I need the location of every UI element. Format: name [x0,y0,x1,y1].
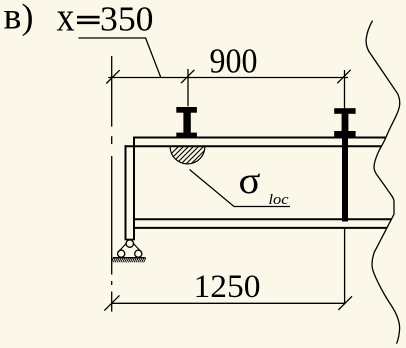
tick at first load point on top dimension [181,70,194,83]
extension centerline at support (dash-dot) [111,56,113,312]
label x=350 [57,0,154,40]
support pin circle [126,240,133,247]
svg-text:x: x [57,0,75,40]
svg-text:350: 350 [100,0,154,39]
beam left end inner edge [133,137,135,240]
dimension line top (x=350 and 900 chain) [108,77,348,79]
bold web stiffener bar at right load [342,138,348,222]
dimension line bottom 1250 [112,302,345,304]
svg-text:σ: σ [239,160,261,202]
local stress dome hatch [157,142,223,168]
support left strut [118,243,127,253]
support right strut [133,243,142,253]
extension line at second load point [344,70,346,109]
beam top flange top line [134,137,386,139]
svg-text:900: 900 [210,42,258,81]
stiffener / load stamp left (bold I) [176,107,197,138]
tick at left end of bottom dimension [104,295,119,310]
extension line at first load point [187,69,189,106]
svg-text:1250: 1250 [194,269,261,305]
tick at left end of top dimension [106,70,119,83]
stiffener / load stamp right (bold I) [334,108,355,137]
local stress dome outline [170,147,205,164]
beam left end outer edge [125,145,127,239]
break wave line [366,21,400,344]
beam top flange bottom line [126,145,382,147]
svg-text:loc: loc [269,192,289,208]
tick at right end of bottom dimension [338,296,352,310]
beam bottom flange top line [134,218,392,220]
support left roller [118,250,125,257]
leader line sigma loc [190,170,291,207]
svg-text:в): в) [4,0,34,38]
extension line right of bottom dimension [344,229,346,304]
beam bottom flange bottom line [134,227,388,229]
support ground hatching [111,258,146,262]
support right roller [135,250,142,257]
leader line for x=350 [78,38,160,77]
beam left end bottom cap [125,239,136,241]
tick at right end of top dimension [337,70,350,83]
support ground line [113,257,146,259]
